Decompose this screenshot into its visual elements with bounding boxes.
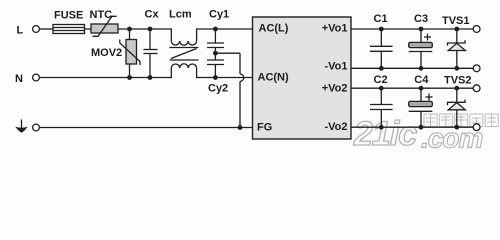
capacitor Cy2 — [207, 53, 224, 77]
wire +Vo1 rail — [351, 28, 473, 30]
wire ground to module FG — [40, 127, 253, 129]
watermark chinese characters — [424, 114, 498, 127]
capacitor C3 polarity + — [424, 34, 431, 41]
svg-text:FG: FG — [257, 122, 272, 134]
thermistor NTC label — [90, 9, 113, 21]
node junction -Vo1-C1 — [379, 66, 384, 71]
capacitor C1 label — [374, 13, 388, 25]
inductor Lcm label — [169, 9, 192, 21]
pin +Vo1 label — [322, 23, 348, 35]
svg-text:MOV2: MOV2 — [91, 47, 122, 59]
wire N rail right of choke to module AC(N) — [197, 77, 253, 79]
wire choke to module AC(L) — [197, 28, 253, 30]
svg-text:C4: C4 — [414, 74, 429, 86]
wire fuse to NTC — [85, 28, 92, 30]
svg-text:-Vo1: -Vo1 — [324, 61, 347, 73]
capacitor Cx label — [145, 9, 160, 21]
wire crossover vertical with hop over N rail — [240, 53, 244, 127]
pin AC(L) label — [259, 23, 289, 35]
node junction +Vo1-C3 — [419, 27, 424, 32]
pin FG label — [257, 122, 272, 134]
node junction L-MOV2 — [127, 27, 132, 32]
node junction -Vo1-TVS1 — [454, 66, 459, 71]
svg-text:C1: C1 — [374, 13, 388, 25]
module U1 power supply box — [253, 17, 352, 139]
capacitor Cy1 — [207, 29, 224, 53]
node junction +Vo1-TVS1 — [454, 27, 459, 32]
diode TVS2 label — [444, 75, 472, 87]
node N terminal circle — [33, 74, 40, 81]
capacitor C1 — [370, 29, 393, 68]
varistor MOV2 — [120, 29, 140, 78]
fuse FUSE body — [53, 25, 85, 34]
pin -Vo2 label — [324, 121, 347, 133]
node junction +Vo2-C4 — [419, 86, 424, 91]
svg-text:Lcm: Lcm — [169, 9, 192, 21]
node N terminal label — [15, 73, 23, 85]
node junction N-Cy2 — [213, 75, 218, 80]
svg-text:Cy2: Cy2 — [208, 83, 228, 95]
svg-text:21ic: 21ic — [353, 115, 417, 152]
diode TVS2 zener — [448, 88, 466, 127]
node L terminal label — [17, 25, 24, 37]
ground symbol — [15, 120, 28, 133]
node junction FG-crossover — [238, 125, 243, 130]
node junction L-Cx — [148, 27, 153, 32]
capacitor C2 — [370, 88, 393, 127]
svg-text:Cy1: Cy1 — [209, 9, 229, 21]
capacitor C4 electrolytic — [409, 88, 433, 127]
varistor MOV2 label — [91, 47, 122, 59]
node junction L-Cy1 — [213, 27, 218, 32]
svg-text:+Vo1: +Vo1 — [322, 23, 348, 35]
svg-text:FUSE: FUSE — [54, 10, 83, 22]
node junction +Vo1-C1 — [379, 27, 384, 32]
node ground terminal circle — [33, 124, 40, 131]
svg-text:AC(L): AC(L) — [259, 23, 289, 35]
wire +Vo2 rail — [351, 87, 473, 89]
inductor Lcm bottom winding — [171, 64, 196, 78]
svg-text:L: L — [17, 25, 24, 37]
node +Vo2 terminal circle — [473, 85, 480, 92]
svg-text:C2: C2 — [374, 74, 388, 86]
svg-text:TVS2: TVS2 — [444, 75, 472, 87]
node junction +Vo2-TVS2 — [454, 86, 459, 91]
node L terminal circle — [33, 26, 40, 33]
svg-text:NTC: NTC — [90, 9, 113, 21]
wire L terminal to fuse — [40, 28, 53, 30]
node junction N-Cx — [148, 75, 153, 80]
watermark .com — [421, 123, 482, 154]
thermistor NTC body — [91, 16, 118, 36]
watermark 21ic — [353, 115, 417, 153]
capacitor C3 label — [414, 13, 428, 25]
capacitor C4 polarity + — [426, 94, 433, 101]
node junction +Vo2-C2 — [379, 86, 384, 91]
svg-text:AC(N): AC(N) — [258, 72, 289, 84]
wire -Vo2 rail — [351, 126, 473, 128]
wire -Vo1 rail — [351, 67, 473, 69]
pin +Vo2 label — [322, 83, 348, 95]
inductor Lcm common-mode choke top winding — [171, 28, 196, 45]
node -Vo2 terminal circle — [473, 124, 480, 131]
wire Cy midpoint to crossover — [215, 52, 240, 54]
svg-text:Cx: Cx — [145, 9, 160, 21]
diode TVS1 zener — [448, 29, 466, 68]
svg-text:-Vo2: -Vo2 — [324, 121, 347, 133]
capacitor Cy1 label — [209, 9, 229, 21]
svg-text:N: N — [15, 73, 23, 85]
node junction -Vo2-TVS2 — [454, 125, 459, 130]
node junction -Vo2-C4 — [419, 125, 424, 130]
capacitor Cy2 label — [208, 83, 228, 95]
wire NTC to choke (L rail) — [118, 28, 171, 30]
capacitor C2 label — [374, 74, 388, 86]
node junction -Vo2-C2 — [379, 125, 384, 130]
svg-text:+Vo2: +Vo2 — [322, 83, 348, 95]
capacitor C3 electrolytic — [409, 29, 433, 68]
node junction -Vo1-C3 — [419, 66, 424, 71]
diode TVS1 label — [442, 15, 470, 27]
fuse FUSE label — [54, 10, 83, 22]
pin AC(N) label — [258, 72, 289, 84]
node -Vo1 terminal circle — [473, 65, 480, 72]
node +Vo1 terminal circle — [473, 26, 480, 33]
svg-text:C3: C3 — [414, 13, 428, 25]
wire N rail left of choke — [40, 77, 172, 79]
svg-text:TVS1: TVS1 — [442, 15, 470, 27]
capacitor Cx — [144, 29, 158, 78]
capacitor C4 label — [414, 74, 429, 86]
node junction N-MOV2 — [127, 75, 132, 80]
pin -Vo1 label — [324, 61, 347, 73]
inductor Lcm core — [170, 48, 199, 61]
node junction Cy1-Cy2 midpoint — [213, 51, 218, 56]
